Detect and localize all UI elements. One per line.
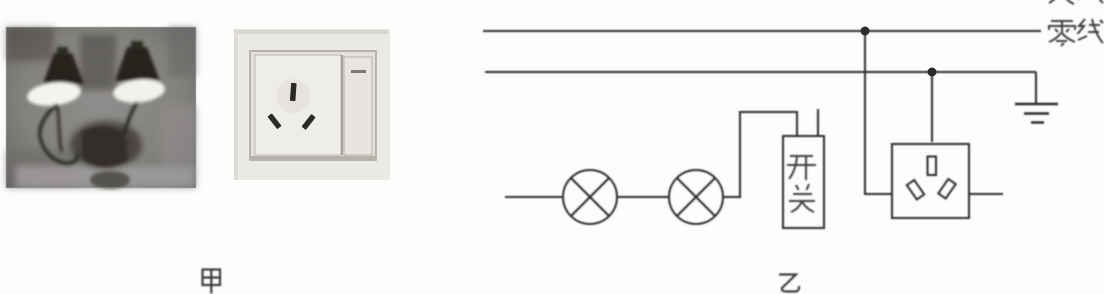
faceplate [250,51,376,160]
label 火线 (live, cut off at top edge) [1049,0,1103,4]
switch divider [341,55,343,155]
label 甲 [203,270,221,294]
wire: neutral line 零线 (top horizontal bus) [483,30,1041,32]
lamp L1 [563,170,617,224]
junction node on earth line [928,68,937,77]
left arm [40,105,78,163]
right bulb glow [112,77,166,105]
center mount [82,127,128,167]
wire: socket right lead [969,193,1003,195]
ground symbol [1015,103,1058,106]
零 [1051,20,1073,22]
left slot [267,113,281,129]
socket earth slot [928,157,937,176]
photo: double wall lamp picture (甲 left) [6,27,196,189]
wire: switch upper stub [817,109,819,136]
schematic strokes [483,31,1058,228]
wire: earth line (second horizontal bus) [485,71,1036,73]
socket right slot [938,179,955,198]
right slot [301,114,315,130]
socket left slot [907,180,924,199]
right lamp shade [115,47,160,81]
switch indicator [351,70,366,73]
wire: left lead to lamp L1 [505,196,563,198]
socket recess circle [276,79,310,113]
socket module [255,55,341,155]
junction node on neutral line [861,27,870,36]
wire: earth line down to ground symbol [1035,72,1037,104]
线 [1078,19,1086,34]
lamp L2 [669,170,723,224]
switch key [344,57,372,155]
left lamp shade [43,53,84,84]
label 乙 [779,275,799,292]
label 开关 inside switch box [787,156,816,212]
socket box [892,144,969,218]
earth slot [290,83,297,101]
wire: earth-line drop to socket top pin [931,72,933,142]
wire: between lamps [617,196,669,198]
wire: lamp L2 to switch (up and over) [723,112,797,197]
photo: socket + switch picture (甲 right) [234,29,390,180]
right arm [110,102,137,164]
switch box 开关 [783,136,824,228]
label 零线 (neutral) [1049,19,1103,46]
wire: neutral drop to socket left [865,31,892,194]
left bulb glow [26,79,82,108]
